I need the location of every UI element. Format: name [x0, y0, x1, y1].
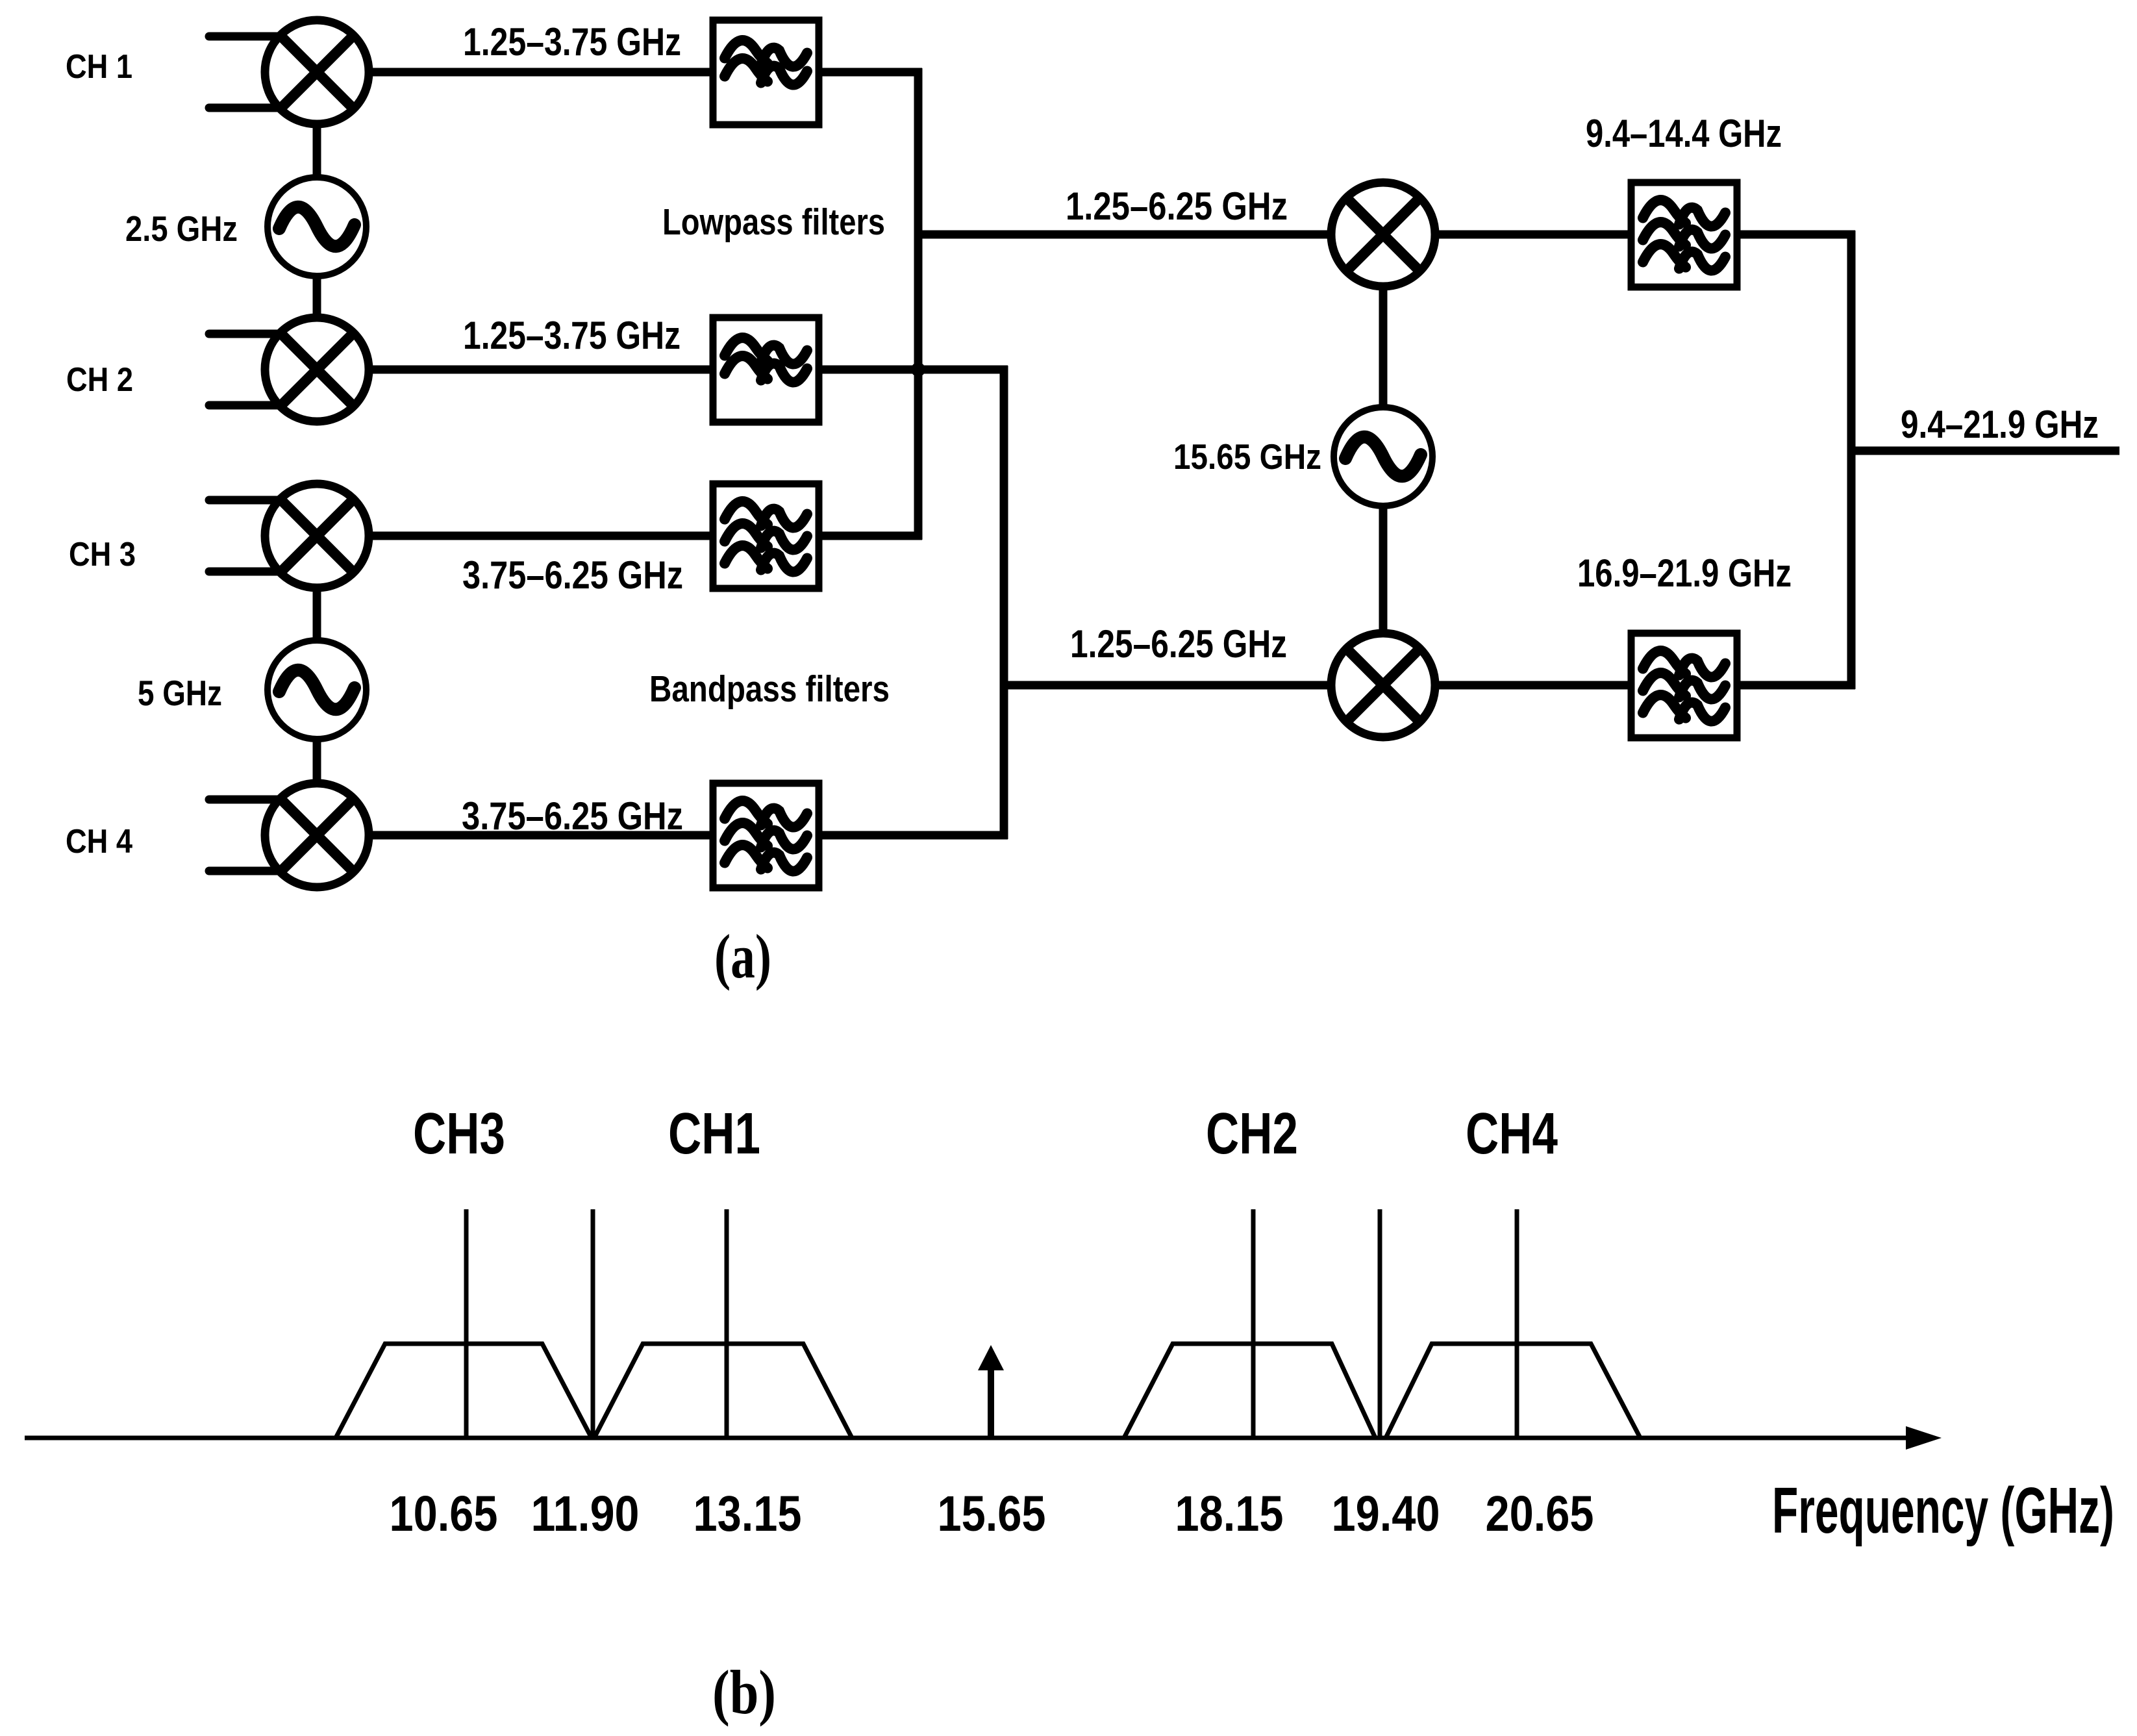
- label (a): [714, 922, 771, 991]
- svg-text:CH 3: CH 3: [69, 536, 136, 573]
- tick label 10.65: [390, 1486, 498, 1542]
- svg-text:CH4: CH4: [1466, 1101, 1558, 1166]
- svg-text:CH 4: CH 4: [66, 823, 132, 861]
- svg-text:2.5 GHz: 2.5 GHz: [125, 208, 238, 249]
- oscillator O1 (2.5 GHz LO): [268, 177, 366, 276]
- wire output bus vertical (joins F5 and F6 outputs): [1847, 231, 1856, 689]
- wire M1 output to lowpass filter F1: [368, 68, 716, 77]
- svg-text:9.4–14.4 GHz: 9.4–14.4 GHz: [1586, 112, 1782, 155]
- label CH3 (spectrum): [413, 1101, 505, 1166]
- svg-text:13.15: 13.15: [694, 1486, 802, 1542]
- wire CH4 mixer input stub top: [209, 796, 283, 804]
- svg-text:CH2: CH2: [1206, 1101, 1298, 1166]
- wire CH1 mixer input stub top: [209, 32, 283, 41]
- spectrum trapezoid CH4 (20.65 GHz): [1386, 1344, 1640, 1438]
- svg-text:9.4–21.9 GHz: 9.4–21.9 GHz: [1901, 403, 2099, 446]
- svg-text:1.25–3.75 GHz: 1.25–3.75 GHz: [463, 314, 681, 357]
- svg-text:16.9–21.9 GHz: 16.9–21.9 GHz: [1577, 551, 1792, 595]
- wire CH1 mixer input stub bottom: [209, 104, 283, 112]
- svg-text:CH3: CH3: [413, 1101, 505, 1166]
- tick label 18.15: [1175, 1486, 1284, 1542]
- tick label 20.65: [1486, 1486, 1594, 1542]
- wire CH2 mixer input stub top: [209, 330, 283, 338]
- junction dot on bandpass wire crossing lowpass bus: [911, 362, 925, 377]
- svg-text:(b): (b): [712, 1657, 776, 1727]
- wire vertical link M5 to oscillator O3: [1379, 285, 1388, 409]
- wire vertical link M1 to oscillator O1: [313, 123, 321, 179]
- label 9.4-21.9 GHz (final output): [1901, 403, 2099, 446]
- wire F5 output to output bus: [1734, 231, 1855, 239]
- wire vertical link O1 to mixer M2: [313, 276, 321, 319]
- wire M5 output to filter F5: [1434, 231, 1634, 239]
- spectrum trapezoid CH1 (13.15 GHz): [594, 1344, 852, 1438]
- oscillator O3 (15.65 GHz LO): [1334, 407, 1432, 506]
- svg-text:11.90: 11.90: [531, 1486, 640, 1542]
- svg-text:19.40: 19.40: [1332, 1486, 1440, 1542]
- svg-text:20.65: 20.65: [1486, 1486, 1594, 1542]
- label 1.25-6.25 GHz (bandpass branch): [1070, 622, 1287, 666]
- label 1.25-3.75 GHz (CH2 path): [463, 314, 681, 357]
- label 3.75-6.25 GHz (CH4 path): [462, 794, 683, 838]
- mixer M4 (CH4): [265, 783, 369, 887]
- label CH 4: [66, 823, 132, 861]
- svg-text:Frequency (GHz): Frequency (GHz): [1772, 1474, 2114, 1547]
- svg-text:3.75–6.25 GHz: 3.75–6.25 GHz: [462, 794, 683, 838]
- wire lowpass combined signal to mixer M5: [918, 231, 1335, 239]
- wire vertical link O3 to mixer M6: [1379, 506, 1388, 635]
- svg-text:18.15: 18.15: [1175, 1486, 1284, 1542]
- tick label 19.40: [1332, 1486, 1440, 1542]
- label 1.25-6.25 GHz (lowpass branch): [1066, 184, 1288, 228]
- mixer M5 (second stage up-converter, lowpass branch): [1331, 182, 1435, 286]
- bandpass filter F6: [1631, 633, 1737, 738]
- label CH 3: [69, 536, 136, 573]
- wire CH3 mixer input stub top: [209, 496, 283, 505]
- label 3.75-6.25 GHz (CH3 path): [462, 553, 683, 597]
- spectrum trapezoid CH2 (18.15 GHz): [1124, 1344, 1375, 1438]
- label Lowpass filters: [662, 201, 885, 243]
- label 2.5 GHz: [125, 208, 238, 249]
- wire vertical link O2 to mixer M4: [313, 739, 321, 785]
- label 5 GHz: [138, 673, 222, 713]
- wire M2 output to lowpass filter F2: [368, 366, 716, 374]
- wire F2 output to bandpass bus: [816, 366, 1008, 374]
- wire F6 output to output bus: [1734, 681, 1855, 690]
- marker line CH4 carrier 20.65 GHz: [1515, 1209, 1519, 1438]
- tick label 15.65: [938, 1486, 1046, 1542]
- wire M4 output to bandpass filter F4: [368, 831, 716, 840]
- mixer M3 (CH3): [265, 484, 369, 588]
- marker line band edge 19.40 GHz: [1378, 1209, 1382, 1438]
- svg-text:15.65: 15.65: [938, 1486, 1046, 1542]
- label CH 2: [66, 361, 133, 399]
- svg-text:3.75–6.25 GHz: 3.75–6.25 GHz: [462, 553, 683, 597]
- wire bandpass combined signal to mixer M6: [1004, 681, 1335, 690]
- svg-text:Bandpass filters: Bandpass filters: [649, 668, 890, 710]
- svg-text:5 GHz: 5 GHz: [138, 673, 222, 713]
- wire CH2 mixer input stub bottom: [209, 401, 283, 410]
- tick label 13.15: [694, 1486, 802, 1542]
- wire CH3 mixer input stub bottom: [209, 568, 283, 576]
- mixer M1 (CH1): [265, 20, 369, 124]
- wire bandpass bus vertical (joins F2 and F4 outputs): [1000, 366, 1008, 839]
- lowpass filter F2: [713, 318, 819, 422]
- marker line CH3 carrier 10.65 GHz: [464, 1209, 469, 1438]
- LO impulse arrow at 15.65 GHz: [978, 1345, 1004, 1437]
- wire F3 output to lowpass bus: [816, 532, 922, 540]
- label CH4 (spectrum): [1466, 1101, 1558, 1166]
- bandpass filter F3: [713, 484, 819, 588]
- bandpass filter F4: [713, 783, 819, 888]
- svg-text:1.25–6.25 GHz: 1.25–6.25 GHz: [1066, 184, 1288, 228]
- lowpass filter F1: [713, 20, 819, 125]
- marker line CH1 carrier 13.15 GHz: [725, 1209, 729, 1438]
- label CH1 (spectrum): [668, 1101, 760, 1166]
- label (b): [712, 1657, 776, 1727]
- marker line band edge 11.90 GHz: [591, 1209, 595, 1438]
- label Bandpass filters: [649, 668, 890, 710]
- label CH 1: [66, 48, 132, 86]
- wire CH4 mixer input stub bottom: [209, 867, 283, 875]
- svg-text:1.25–6.25 GHz: 1.25–6.25 GHz: [1070, 622, 1287, 666]
- wire F4 output to bandpass bus: [816, 831, 1008, 840]
- svg-text:10.65: 10.65: [390, 1486, 498, 1542]
- label CH2 (spectrum): [1206, 1101, 1298, 1166]
- svg-text:CH 2: CH 2: [66, 361, 133, 399]
- wire M3 output to bandpass filter F3: [368, 532, 716, 540]
- wire M6 output to filter F6: [1434, 681, 1634, 690]
- svg-text:1.25–3.75 GHz: 1.25–3.75 GHz: [463, 20, 681, 64]
- marker line CH2 carrier 18.15 GHz: [1251, 1209, 1256, 1438]
- bandpass filter F5: [1631, 182, 1737, 287]
- spectrum trapezoid CH3 (10.65 GHz): [336, 1344, 592, 1438]
- wire F1 output to lowpass bus: [816, 68, 922, 77]
- label 1.25-3.75 GHz (CH1 path): [463, 20, 681, 64]
- svg-text:15.65 GHz: 15.65 GHz: [1173, 436, 1321, 477]
- svg-text:CH1: CH1: [668, 1101, 760, 1166]
- svg-text:CH 1: CH 1: [66, 48, 132, 86]
- label 15.65 GHz: [1173, 436, 1321, 477]
- wire vertical link M3 to oscillator O2: [313, 586, 321, 642]
- label 16.9-21.9 GHz: [1577, 551, 1792, 595]
- tick label 11.90: [531, 1486, 640, 1542]
- frequency axis with arrowhead: [25, 1426, 1942, 1450]
- label 9.4-14.4 GHz: [1586, 112, 1782, 155]
- mixer M6 (second stage up-converter, bandpass branch): [1331, 633, 1435, 737]
- wire final output: [1851, 447, 2119, 455]
- oscillator O2 (5 GHz LO): [268, 640, 366, 739]
- wire lowpass bus vertical (joins F1 and F3 outputs): [914, 68, 923, 540]
- svg-text:(a): (a): [714, 922, 771, 991]
- mixer M2 (CH2): [265, 318, 369, 421]
- svg-text:Lowpass filters: Lowpass filters: [662, 201, 885, 243]
- axis title Frequency (GHz): [1772, 1474, 2114, 1547]
